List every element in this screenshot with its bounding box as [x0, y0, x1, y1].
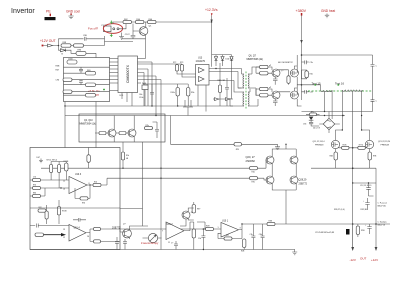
- capacitor C1b input: [201, 229, 205, 250]
- IC left pin 7: [110, 79, 119, 81]
- junction output row b: [375, 223, 377, 225]
- junction U10.1 out: [241, 223, 242, 224]
- junction T1 tap right: [361, 129, 362, 130]
- wire NTC tops: [51, 162, 66, 165]
- resistor U10.1 feedback: [224, 237, 232, 240]
- transistor Q21d: [290, 156, 298, 164]
- svg-text:MMBT3904 (1k): MMBT3904 (1k): [80, 124, 97, 126]
- wire right rail down: [375, 168, 377, 224]
- diode D17: [215, 98, 219, 101]
- resistor lower R7: [260, 87, 269, 90]
- ground under connector: [119, 33, 124, 40]
- svg-text:R9b: R9b: [33, 185, 36, 187]
- svg-text:R10b: R10b: [171, 92, 175, 94]
- wire Q21 drain up: [362, 130, 370, 140]
- wire base bus A: [41, 167, 250, 169]
- resistor row5 left: [63, 90, 72, 93]
- svg-text:OUT: OUT: [360, 257, 367, 261]
- svg-text:Test 15: Test 15: [312, 81, 321, 85]
- svg-text:U10 2: U10 2: [167, 224, 174, 226]
- wire cluster row2: [64, 72, 86, 74]
- component W0B box below IC: [142, 85, 148, 90]
- wire u103 feedback: [75, 185, 90, 198]
- svg-text:+12.3Vs: +12.3Vs: [205, 8, 218, 12]
- wire input node: [203, 228, 221, 230]
- opamp U10.1: [221, 223, 239, 238]
- wire U13 bottom drop 1: [197, 85, 199, 106]
- svg-text:+12V: +12V: [371, 258, 378, 262]
- ground GND heat: [325, 14, 329, 18]
- wire JPB row: [171, 143, 235, 145]
- capacitor C74B: [67, 60, 77, 64]
- wire cluster row4: [64, 84, 110, 86]
- cluster box around RC network: [64, 58, 110, 102]
- wire source resistors: [336, 149, 370, 169]
- wire R73 bottom to U13: [182, 71, 196, 77]
- svg-text:C?: C?: [171, 243, 173, 245]
- svg-text:C: Р-канал: C: Р-канал: [378, 203, 387, 205]
- wire base bus B: [107, 177, 250, 179]
- diode D2b: [221, 57, 224, 61]
- svg-text:U10.3: U10.3: [75, 174, 82, 176]
- node +12.3Vs arrow: [211, 13, 213, 16]
- svg-text:R9b: R9b: [82, 203, 85, 205]
- capacitor C2b on 380 rail: [302, 90, 309, 94]
- transformer T2 core green: [245, 72, 247, 109]
- wire R10b: [177, 84, 179, 106]
- svg-text:PFB9648: PFB9648: [315, 144, 324, 146]
- mosfet Q9: [290, 91, 298, 99]
- wire bottom rail: [30, 249, 295, 251]
- svg-text:Q28,29: Q28,29: [299, 179, 308, 182]
- wire R04-R06: [144, 21, 148, 23]
- wire u103 output: [87, 184, 93, 186]
- capacitor C8b: [261, 224, 265, 250]
- capacitor cluster c1: [79, 67, 83, 73]
- wire upper stage: [256, 67, 272, 73]
- resistor Q10 base: [119, 132, 126, 135]
- resistor base drive 1: [250, 167, 258, 170]
- bridge rectifier: [323, 118, 335, 129]
- svg-text:R26,27 (4,4): R26,27 (4,4): [334, 209, 345, 211]
- wire U13 out1: [209, 69, 242, 75]
- wire output row: [275, 223, 390, 225]
- buffer triangle 2: [199, 77, 205, 82]
- svg-text:C1b: C1b: [250, 234, 253, 236]
- wire R72 bottom to U13: [177, 71, 196, 74]
- junction bridge rail left: [324, 111, 325, 112]
- wire Q2x emitters mid: [272, 163, 296, 176]
- wire U10.4 out: [86, 229, 206, 241]
- transistor Q7: [272, 91, 280, 99]
- transistor Q20: [266, 156, 274, 164]
- wire cluster row1: [64, 66, 110, 68]
- svg-text:680,2*16: 680,2*16: [378, 225, 386, 227]
- svg-text:Invertor: Invertor: [11, 8, 35, 15]
- svg-text:680,0*16v: 680,0*16v: [378, 206, 387, 208]
- wire bus2 stubs caps: [183, 100, 193, 116]
- junction U10.1 input: [203, 228, 205, 230]
- junction gate row center: [352, 147, 354, 149]
- IC right pin wire 7: [138, 79, 162, 81]
- svg-text:-12V: -12V: [350, 258, 356, 262]
- wire +12V OUT entry: [44, 45, 59, 47]
- transformer T1 winding A: [321, 85, 332, 92]
- svg-text:Q20, 27: Q20, 27: [246, 155, 256, 159]
- wire J5 connections: [180, 202, 194, 226]
- transistor Q6: [272, 69, 280, 77]
- junction u103 out: [89, 184, 90, 185]
- IC right pin wire 5: [138, 73, 145, 107]
- svg-text:1: 1: [217, 227, 218, 229]
- capacitor C4b under IC: [150, 84, 154, 106]
- capacitor C6b: [115, 237, 119, 250]
- wire source bus: [311, 167, 376, 169]
- wire T1 winding A terminals: [325, 90, 333, 119]
- junction 380: [301, 54, 303, 56]
- svg-text:R32,3B: R32,3B: [361, 209, 368, 211]
- resistor lower R8: [260, 94, 269, 97]
- svg-text:CM6800TX: CM6800TX: [126, 64, 130, 83]
- svg-text:C12,15,16,19: C12,15,16,19: [360, 185, 371, 187]
- svg-text:1N4427N: 1N4427N: [196, 61, 206, 63]
- resistor U10.2 right vert: [192, 229, 195, 238]
- IC right pin wire 3 to R72 R73: [138, 63, 183, 65]
- junction inverting input: [60, 187, 61, 188]
- opamp U10.3: [69, 177, 87, 194]
- resistor R98 series A: [61, 44, 71, 47]
- wire R4c: [288, 71, 290, 85]
- junction T1 tap left: [342, 129, 343, 130]
- resistor R1b on 380 rail: [305, 71, 308, 78]
- diode D2c: [226, 98, 230, 101]
- svg-text:JP5: JP5: [311, 111, 314, 113]
- resistor R9B vertical: [368, 152, 371, 160]
- IC left pin 1: [110, 58, 119, 60]
- wire mosfet2 drain: [294, 85, 297, 95]
- mosfet Q8: [290, 69, 298, 77]
- svg-text:Q21,22,23,24: Q21,22,23,24: [378, 141, 391, 143]
- wire 380 corner top: [302, 55, 373, 64]
- resistor upper R7: [260, 65, 269, 68]
- resistor R59B: [65, 163, 68, 171]
- capacitor C12: [366, 183, 373, 196]
- resistor R10b vertical: [176, 88, 179, 97]
- connector PCIP1 body: [104, 26, 112, 32]
- junction JPB node: [285, 144, 286, 145]
- resistor Q4 base: [99, 132, 106, 135]
- svg-text:R3B: R3B: [56, 66, 61, 68]
- resistor R0B vertical: [243, 239, 246, 248]
- svg-text:7: 7: [162, 231, 163, 233]
- resistor R04: [135, 20, 144, 23]
- wire Q10 emitter: [133, 136, 135, 142]
- IC left pin 9 red node: [110, 90, 119, 92]
- svg-text:R82 C82: R82 C82: [218, 80, 225, 82]
- IC right pin wire to Q1 emitter: [138, 58, 146, 60]
- resistor R06: [148, 20, 157, 23]
- capacitor C82: [225, 78, 229, 99]
- svg-text:C: Камера: C: Камера: [378, 222, 388, 224]
- wire U10.1 feedback: [218, 230, 242, 239]
- resistor R9a above cluster: [76, 51, 86, 55]
- wire lower stage: [256, 89, 272, 95]
- wire fan stubs: [143, 237, 162, 239]
- wire between series: [71, 45, 74, 47]
- buffer triangle 1: [199, 68, 205, 73]
- transistor Q22d: [266, 176, 274, 184]
- vertical rail C: [143, 142, 149, 226]
- svg-text:2SD682: 2SD682: [246, 159, 256, 163]
- transformer T2 right winding 2: [248, 92, 249, 106]
- svg-text:R67b: R67b: [343, 145, 347, 147]
- resistor u103 feedback: [80, 197, 88, 200]
- capacitor C9B top branch: [84, 37, 104, 41]
- wire mosfet drain up: [294, 55, 297, 73]
- node +12V OUT red dot: [42, 45, 44, 47]
- wire mid rail to transformer: [302, 84, 321, 86]
- resistor R5B vertical bottom: [356, 226, 359, 235]
- junction source bus: [352, 167, 354, 169]
- wire cap row: [353, 182, 376, 184]
- IC left pin 5: [110, 72, 119, 74]
- svg-text:R2b: R2b: [146, 125, 149, 127]
- svg-text:Q4, Q10: Q4, Q10: [84, 120, 93, 122]
- node +380V red tick: [301, 13, 303, 16]
- box Q4 Q10 stage: [79, 114, 165, 142]
- wire R9a to cluster top: [86, 53, 96, 57]
- vertical long rail B: [170, 116, 172, 145]
- wire Q4 collector: [113, 116, 115, 130]
- svg-text:R73: R73: [180, 62, 183, 64]
- resistor U10.4 out upper: [94, 227, 101, 230]
- node GND cool red dot: [70, 13, 71, 15]
- wire U13 out3: [209, 81, 242, 93]
- diode D9 below junction: [59, 46, 61, 51]
- wire branch up: [59, 39, 84, 46]
- wire U13 out2: [209, 72, 242, 89]
- thermistor NTC4: [58, 165, 61, 173]
- wire base drive 1: [258, 160, 268, 168]
- wire box divider: [30, 207, 120, 209]
- svg-text:+12V OUT: +12V OUT: [40, 39, 56, 43]
- resistor above J5: [192, 205, 195, 214]
- resistor R70B vertical: [57, 207, 60, 216]
- wire +380V rail vertical: [301, 16, 303, 101]
- svg-text:Q11,12,13,14: Q11,12,13,14: [313, 141, 326, 143]
- resistor base drive 2: [250, 177, 258, 180]
- capacitor output electrolytic 2: [367, 224, 371, 234]
- svg-text:C1b: C1b: [198, 238, 201, 240]
- svg-text:GND heat: GND heat: [321, 9, 335, 13]
- svg-text:U10 1: U10 1: [222, 220, 229, 222]
- transformer T2 left winding 2: [243, 92, 244, 106]
- svg-text:13: 13: [63, 229, 65, 231]
- IC bottom pin a: [121, 93, 123, 100]
- wire U10.2 output: [184, 222, 205, 231]
- ground GND cool: [68, 15, 73, 19]
- svg-text:Q6, Q7: Q6, Q7: [249, 56, 257, 58]
- wire +12.3 rail branch at diode row: [212, 54, 232, 56]
- capacitor output electrolytic 1: [365, 198, 369, 210]
- svg-text:Q?: Q?: [281, 70, 284, 72]
- resistor R82 vertical: [218, 85, 221, 93]
- wire box to rail C: [120, 208, 143, 210]
- resistor U10.4 input: [35, 233, 44, 236]
- resistor R2B input: [206, 227, 214, 230]
- wire Q30 connections: [120, 226, 143, 239]
- svg-text:12: 12: [63, 237, 65, 239]
- resistor row3 right: [86, 83, 96, 87]
- resistor JP5 snubber: [310, 113, 317, 116]
- capacitor C4c: [152, 122, 159, 138]
- wire R02-R04: [132, 21, 136, 23]
- IC left pin 8: [110, 82, 119, 84]
- fuse highlight red ellipse: [103, 24, 122, 34]
- resistor R4c vertical: [287, 76, 290, 84]
- transformer T1 winding B: [342, 90, 362, 91]
- svg-text:MMBT3906 (2k): MMBT3906 (2k): [247, 59, 264, 61]
- wire bridge rail: [302, 111, 373, 113]
- resistor R72: [175, 65, 178, 71]
- svg-text:NTC1 NTC4: NTC1 NTC4: [47, 160, 57, 162]
- resistor R67: [342, 146, 350, 149]
- wire Q10 collector: [133, 116, 135, 130]
- svg-text:06Y+MOSFETX2: 06Y+MOSFETX2: [278, 62, 293, 64]
- wire T2 terminals right: [248, 67, 260, 106]
- wire gate row: [339, 147, 368, 149]
- resistor column top vert: [87, 155, 90, 163]
- wire R82 column top: [219, 63, 221, 85]
- resistor R73: [180, 65, 183, 71]
- IC U11 CM6800TX body: [118, 56, 138, 93]
- svg-text:R2?: R2?: [226, 235, 229, 237]
- diode D5 snubber: [309, 117, 314, 120]
- capacitor input U10.4: [30, 224, 69, 228]
- wire +12.3V rail vertical: [211, 16, 213, 67]
- svg-text:Test 16: Test 16: [335, 81, 344, 85]
- node green dot: [103, 89, 105, 91]
- svg-text:C7b: C7b: [33, 177, 36, 179]
- transistor Q23d: [290, 176, 298, 184]
- wire Q11 drain up: [336, 130, 343, 140]
- wire Q20 collectors top: [272, 144, 296, 157]
- svg-text:C10b: C10b: [139, 97, 143, 99]
- svg-text:R9b: R9b: [191, 92, 194, 94]
- wire bold setpoint arrow: [44, 233, 63, 236]
- svg-text:3: 3: [240, 228, 241, 230]
- IC left pin 3: [110, 65, 119, 67]
- fan motor symbol: [148, 233, 157, 242]
- svg-text:PFB9648: PFB9648: [381, 144, 390, 146]
- svg-text:СП-76-ВР-В21а-К5,8К: СП-76-ВР-В21а-К5,8К: [315, 232, 335, 234]
- resistor R3B output: [267, 222, 275, 225]
- wire diode right: [66, 50, 77, 53]
- junction input node: [58, 45, 60, 47]
- resistor R2b: [145, 127, 153, 130]
- wire base drive 2: [258, 178, 268, 180]
- wire Q2x emitters bottom: [272, 183, 296, 224]
- thermistor NTC1: [50, 165, 53, 173]
- svg-text:Q?: Q?: [123, 224, 126, 226]
- svg-text:U13: U13: [198, 58, 203, 60]
- resistor u103 out series: [93, 183, 101, 186]
- IC bottom pin b: [126, 93, 128, 103]
- wire U13 bottom drop 2: [205, 85, 207, 112]
- wire Q1 emitter down: [145, 35, 147, 59]
- IC bottom pin c: [131, 93, 133, 107]
- resistor R77: [358, 146, 366, 149]
- transformer T2 left winding 1: [243, 74, 244, 88]
- mosfet Q11 group: [331, 140, 339, 148]
- resistor rail drop vert: [121, 152, 124, 160]
- wire cluster row6: [64, 94, 86, 96]
- svg-text:R7b: R7b: [252, 182, 255, 184]
- junction mid rail: [301, 84, 303, 86]
- svg-text:C1b: C1b: [310, 62, 313, 64]
- svg-text:GND cool: GND cool: [66, 10, 80, 14]
- wire T2 terminals left: [230, 74, 244, 106]
- thermistor lower 1: [45, 211, 48, 219]
- transistor Q30 2SB772: [123, 229, 132, 238]
- wire JPB to ground: [242, 144, 281, 149]
- wire diode row drops: [220, 66, 232, 106]
- wire cluster row3: [64, 79, 110, 81]
- capacitor C9d: [123, 239, 127, 250]
- svg-text:Fus off?: Fus off?: [88, 26, 98, 30]
- node PE red tick: [50, 14, 51, 17]
- wire top rail to +12.3: [156, 21, 212, 23]
- wire W0B down: [144, 90, 146, 107]
- svg-text:R77b: R77b: [359, 145, 363, 147]
- capacitor C2c: [73, 218, 86, 222]
- wire T1 winding B terminals: [342, 90, 361, 250]
- IC right pin wire 2: [138, 62, 153, 106]
- IC left pin 4: [110, 68, 119, 70]
- wire cluster left drop: [64, 102, 66, 148]
- resistor R99 series B: [74, 44, 84, 47]
- wire NTC bottoms: [51, 171, 66, 188]
- resistor upper R8: [260, 72, 269, 75]
- connector pin 2: [117, 28, 119, 30]
- svg-text:U10 4: U10 4: [74, 227, 81, 229]
- wire connector right: [119, 22, 126, 29]
- node output arrow right: [375, 247, 378, 251]
- junction bus A entry: [122, 168, 123, 169]
- junction top rail: [211, 21, 212, 22]
- capacitor U10.2 under: [174, 241, 178, 250]
- IC left pin 6: [110, 75, 119, 77]
- capacitor C18: [273, 98, 278, 106]
- node green tick bottom: [110, 34, 113, 37]
- svg-text:D4?: D4?: [37, 157, 40, 159]
- opamp U10.2: [166, 222, 184, 240]
- svg-text:C8b: C8b: [259, 234, 262, 236]
- wire cluster row5: [64, 91, 110, 93]
- diode D3b: [230, 57, 233, 61]
- wire connector top to resistor row: [113, 22, 123, 24]
- IC right pin wire 4: [138, 69, 149, 106]
- wire U10.1 output: [239, 224, 268, 230]
- svg-text:+380V: +380V: [296, 9, 307, 13]
- node +380 arrowhead on wire: [300, 40, 303, 43]
- transistor Q10: [128, 129, 136, 137]
- wire row under IC: [143, 83, 188, 85]
- svg-text:R1b: R1b: [252, 172, 255, 174]
- svg-text:10: 10: [63, 189, 65, 191]
- resistor R8c bottom left: [38, 209, 46, 212]
- node input arrow symbol: [48, 44, 53, 47]
